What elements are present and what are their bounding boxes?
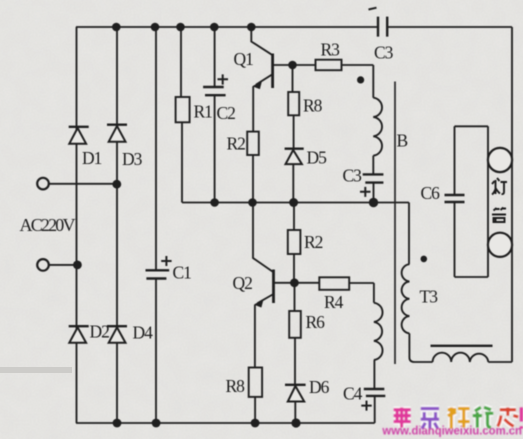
svg-text:www.dianqiweixiu.com.cn: www.dianqiweixiu.com.cn: [381, 425, 522, 437]
